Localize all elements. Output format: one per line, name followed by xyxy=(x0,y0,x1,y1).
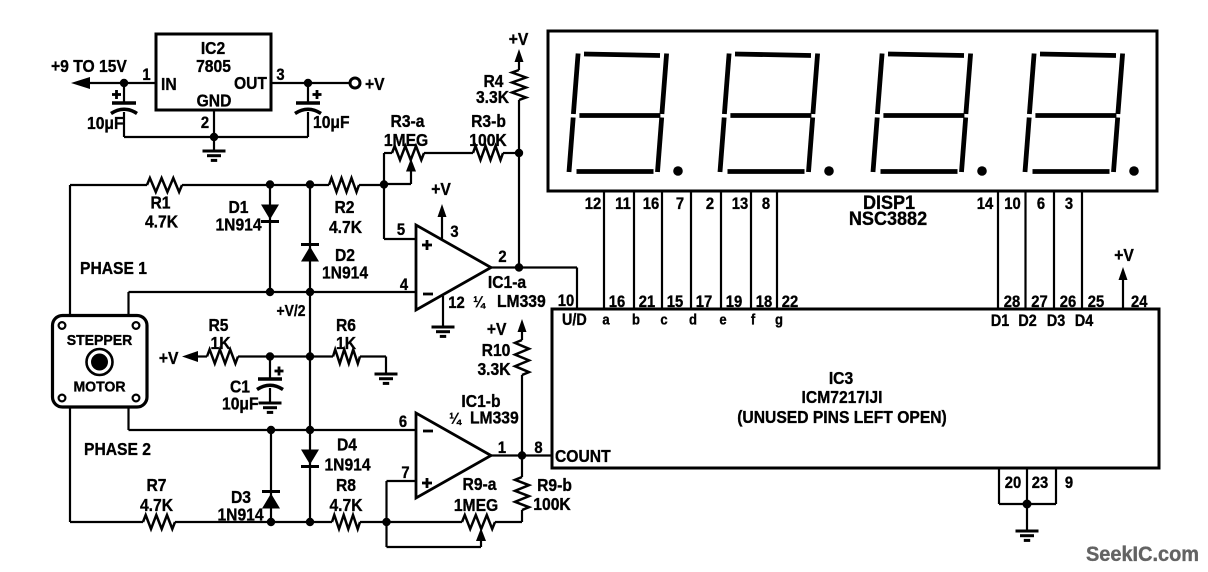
node +V/2 / D2 chain xyxy=(306,288,314,296)
pin 4 label xyxy=(400,276,408,294)
svg-text:OUT: OUT xyxy=(234,73,268,93)
capacitor 10uF (output) xyxy=(295,83,322,137)
digit label D1 xyxy=(991,312,1010,330)
wire stepper top-right to +V/2 rail xyxy=(127,292,129,316)
svg-text:PHASE 2: PHASE 2 xyxy=(84,439,151,459)
svg-text:+9 TO 15V: +9 TO 15V xyxy=(51,56,128,76)
pin 2 label xyxy=(498,248,506,266)
svg-text:SeekIC.com: SeekIC.com xyxy=(1086,543,1199,567)
svg-text:10μF: 10μF xyxy=(222,393,259,413)
diode D4 1N914 xyxy=(301,430,319,522)
wire display segment c xyxy=(661,191,663,309)
display pin 8 label xyxy=(762,195,770,213)
svg-text:12: 12 xyxy=(585,195,602,213)
pin 6 label xyxy=(399,413,407,431)
digit label D2 xyxy=(1018,312,1036,330)
IC3 pin 18 label xyxy=(756,293,773,311)
resistor R2 xyxy=(329,178,359,192)
potentiometer R3-a 1MEG xyxy=(384,146,424,184)
svg-text:COUNT: COUNT xyxy=(555,446,611,466)
svg-text:4.7K: 4.7K xyxy=(329,217,363,237)
label R7 4.7K xyxy=(140,475,174,515)
label D4 1N914 xyxy=(324,434,371,474)
wire D2 chain vertical mid xyxy=(309,292,311,430)
label R8 4.7K xyxy=(329,475,363,515)
wire display digit drive D3 xyxy=(1053,191,1055,309)
display pin 14 label xyxy=(977,195,994,213)
label PHASE 1 xyxy=(80,258,147,278)
svg-text:2: 2 xyxy=(498,248,506,266)
wire R3-a to R3-b xyxy=(424,152,473,154)
svg-text:8: 8 xyxy=(762,195,770,213)
label +9 TO 15V xyxy=(51,56,128,76)
svg-text:100K: 100K xyxy=(469,130,507,150)
digit label D4 xyxy=(1075,312,1094,330)
label R1 4.7K xyxy=(145,192,179,231)
svg-text:¼: ¼ xyxy=(449,410,462,428)
label PHASE 2 xyxy=(84,439,151,459)
resistor R5 1K xyxy=(196,350,270,364)
op-amp IC1-a 1/4 LM339 xyxy=(416,225,491,310)
+V supply arrow IC1-a pin3 xyxy=(431,179,451,240)
svg-text:GND: GND xyxy=(197,90,232,110)
watermark SeekIC.com xyxy=(1086,543,1199,567)
wire display segment f xyxy=(750,191,752,309)
IC3 pin 26 label xyxy=(1060,293,1077,311)
display pin 11 label xyxy=(615,195,631,213)
resistor R3-b 100K xyxy=(473,146,519,160)
label D3 1N914 xyxy=(217,487,264,525)
label COUNT xyxy=(555,446,611,466)
wire display digit drive D4 xyxy=(1081,191,1083,309)
svg-text:R2: R2 xyxy=(334,197,354,217)
svg-text:(UNUSED PINS LEFT OPEN): (UNUSED PINS LEFT OPEN) xyxy=(737,407,947,427)
svg-text:c: c xyxy=(660,311,667,328)
label R3-a 1MEG xyxy=(384,111,428,150)
ground IC3 xyxy=(1016,504,1039,540)
decimal point 3 xyxy=(977,166,987,176)
svg-text:LM339: LM339 xyxy=(470,407,519,427)
label DISP1 xyxy=(863,192,915,214)
svg-text:MOTOR: MOTOR xyxy=(73,379,126,395)
svg-text:R7: R7 xyxy=(146,475,166,495)
svg-text:D4: D4 xyxy=(1075,312,1094,330)
node IC1-a output xyxy=(515,263,523,271)
label D2 1N914 xyxy=(322,245,369,283)
svg-text:13: 13 xyxy=(732,195,749,213)
svg-text:D3: D3 xyxy=(1047,312,1066,330)
wire IC3 pin 23 xyxy=(1026,468,1028,504)
svg-text:+V: +V xyxy=(1114,245,1134,265)
potentiometer R9-a 1MEG xyxy=(387,515,523,547)
svg-text:IC3: IC3 xyxy=(829,368,853,388)
pin 1 label xyxy=(498,439,506,457)
label +V at R10 xyxy=(487,319,507,339)
label unused pins note xyxy=(737,407,947,427)
IC3 pin 28 label xyxy=(1004,293,1021,311)
7-segment digit 4 xyxy=(1025,54,1123,173)
segment letter g xyxy=(775,311,783,328)
svg-text:1N914: 1N914 xyxy=(324,454,371,474)
7-segment digit 1 xyxy=(569,54,667,173)
IC3 pin 22 label xyxy=(782,293,799,311)
svg-text:3: 3 xyxy=(450,223,458,241)
IC3 pin 27 label xyxy=(1031,293,1048,311)
capacitor 10uF (input) xyxy=(111,83,137,137)
segment letter e xyxy=(719,311,726,328)
svg-text:+V: +V xyxy=(159,348,179,368)
pin 1 label of IC2 xyxy=(142,66,150,84)
svg-text:10μF: 10μF xyxy=(313,112,350,132)
svg-text:1N914: 1N914 xyxy=(322,262,369,282)
svg-text:+V: +V xyxy=(431,179,451,199)
+V supply pin 24 xyxy=(1119,267,1128,309)
svg-text:+V: +V xyxy=(487,319,507,339)
wire IC2 OUT to +V terminal xyxy=(271,82,350,84)
svg-text:7: 7 xyxy=(401,464,409,482)
svg-text:4.7K: 4.7K xyxy=(329,495,363,515)
wire pin5 input to IC1-a + xyxy=(384,184,416,239)
wire display digit drive D2 xyxy=(1024,191,1026,309)
svg-text:100K: 100K xyxy=(533,494,571,514)
label 1/4 LM339 (b) xyxy=(449,407,519,427)
display DISP1 NSC3882 box xyxy=(548,31,1157,191)
svg-text:1MEG: 1MEG xyxy=(454,495,498,515)
svg-text:10: 10 xyxy=(1004,195,1021,213)
svg-text:+V/2: +V/2 xyxy=(276,302,305,320)
ground at C1 xyxy=(259,403,282,412)
svg-text:LM339: LM339 xyxy=(497,291,546,311)
node IC1-b output xyxy=(518,451,526,459)
svg-text:PHASE 1: PHASE 1 xyxy=(80,258,147,278)
wire +V/2 rail to IC1-a pin4 xyxy=(129,291,417,293)
decimal point 4 xyxy=(1129,166,1139,176)
value label 10uF output cap xyxy=(313,112,350,132)
svg-text:R10: R10 xyxy=(482,340,511,360)
svg-text:D1: D1 xyxy=(991,312,1010,330)
pin 12 label xyxy=(448,294,465,312)
+V output terminal xyxy=(350,74,385,94)
svg-text:g: g xyxy=(775,311,783,328)
wire R3-a left leg xyxy=(384,153,392,184)
pin 5 label xyxy=(397,221,405,239)
node R5/C1 xyxy=(266,352,274,360)
svg-text:e: e xyxy=(719,311,726,328)
ground (power supply) xyxy=(203,137,226,160)
wire IC1-a output to U/D xyxy=(491,268,577,310)
display pin 12 label xyxy=(585,195,602,213)
svg-text:1: 1 xyxy=(142,66,150,84)
svg-text:IN: IN xyxy=(161,74,177,94)
label IC3 xyxy=(829,368,853,388)
wire stepper top-left to phase1 xyxy=(69,185,71,316)
svg-text:U/D: U/D xyxy=(562,311,587,329)
node at output cap xyxy=(304,79,312,87)
pin 23 label xyxy=(1032,474,1049,492)
node bottom rail / D3 xyxy=(267,518,275,526)
wire display segment a xyxy=(603,191,605,309)
svg-text:1MEG: 1MEG xyxy=(384,130,428,150)
label R4 3.3K xyxy=(476,71,510,107)
svg-text:¼: ¼ xyxy=(473,293,486,311)
IC3 pin 15 label xyxy=(667,293,684,311)
svg-text:1N914: 1N914 xyxy=(215,214,262,234)
diode D2 1N914 xyxy=(301,184,319,292)
segment letter c xyxy=(660,311,667,328)
svg-text:1K: 1K xyxy=(336,333,357,353)
capacitor C1 10uF xyxy=(257,357,284,404)
pin 24 label xyxy=(1131,293,1148,311)
segment letter a xyxy=(602,311,609,328)
pin 7 label xyxy=(401,464,409,482)
ground IC1-a pin12 xyxy=(432,296,455,336)
svg-text:d: d xyxy=(689,311,697,328)
label R9-a 1MEG xyxy=(454,474,498,515)
wire ground rail under IC2 xyxy=(124,110,308,137)
svg-text:7: 7 xyxy=(676,195,684,213)
svg-text:3.3K: 3.3K xyxy=(477,359,511,379)
svg-text:5: 5 xyxy=(397,221,405,239)
IC3 pin 25 label xyxy=(1088,293,1105,311)
resistor R4 3.3K pull-up xyxy=(512,49,526,153)
wire R4 junction down to IC1-a output xyxy=(518,153,520,268)
display pin 6 label xyxy=(1037,195,1045,213)
segment letter f xyxy=(751,311,756,328)
input supply arrow (left) xyxy=(71,77,90,89)
label IC1-a xyxy=(488,272,527,292)
decimal point 2 xyxy=(824,166,834,176)
label NSC3882 xyxy=(849,208,927,230)
wire stepper bottom-right to phase2 xyxy=(127,407,129,430)
svg-text:3: 3 xyxy=(1065,195,1073,213)
svg-text:3.3K: 3.3K xyxy=(476,87,510,107)
svg-text:D4: D4 xyxy=(337,434,358,454)
label U/D xyxy=(562,311,587,329)
decimal point 1 xyxy=(673,166,683,176)
svg-text:IC1-a: IC1-a xyxy=(488,272,527,292)
svg-text:R1: R1 xyxy=(150,192,170,212)
svg-text:ICM7217IJI: ICM7217IJI xyxy=(802,387,883,407)
label +V pin24 xyxy=(1114,245,1134,265)
pin 3 label of IC2 xyxy=(276,66,284,84)
label R3-b 100K xyxy=(469,111,507,150)
svg-text:10μF: 10μF xyxy=(87,113,124,133)
svg-text:R8: R8 xyxy=(336,475,356,495)
diode D3 1N914 xyxy=(262,430,280,522)
label D1 1N914 xyxy=(215,197,262,235)
wire bottom rail xyxy=(70,521,387,523)
display pin 7 label xyxy=(676,195,684,213)
svg-text:4.7K: 4.7K xyxy=(140,495,174,515)
resistor R10 3.3K pull-up xyxy=(515,319,529,456)
pin 3 label xyxy=(450,223,458,241)
node at input cap xyxy=(120,79,128,87)
display pin 13 label xyxy=(732,195,749,213)
label IC1-b xyxy=(461,391,500,411)
svg-text:7805: 7805 xyxy=(196,56,231,76)
resistor R8 4.7K xyxy=(332,515,360,529)
resistor R6 1K xyxy=(333,350,386,375)
wire display segment b xyxy=(633,191,635,309)
wire display segment e xyxy=(720,191,722,309)
wire phase 2 rail to IC1-b pin6 xyxy=(129,429,417,431)
svg-text:D2: D2 xyxy=(1018,312,1036,330)
svg-text:16: 16 xyxy=(643,195,660,213)
pin 20 label xyxy=(1005,474,1022,492)
+V arrow left of R5 xyxy=(159,348,198,368)
svg-text:STEPPER: STEPPER xyxy=(67,333,133,349)
label R2 4.7K xyxy=(329,197,363,237)
wire pin7 input xyxy=(387,481,417,522)
svg-text:12: 12 xyxy=(448,294,465,312)
svg-text:6: 6 xyxy=(1037,195,1045,213)
node ground junction xyxy=(1023,500,1032,509)
node phase2/D3 xyxy=(267,426,275,434)
ground at R6 xyxy=(375,374,398,383)
display pin 3 label xyxy=(1065,195,1073,213)
svg-text:a: a xyxy=(602,311,609,328)
resistor R1 xyxy=(147,178,182,192)
node R4/R3-b junction xyxy=(515,149,523,157)
svg-text:1K: 1K xyxy=(210,333,231,353)
pin 10 label xyxy=(558,292,575,310)
node bottom rail / D4 xyxy=(306,518,314,526)
label R9-b 100K xyxy=(533,475,572,514)
svg-text:2: 2 xyxy=(706,195,714,213)
op-amp IC1-b 1/4 LM339 xyxy=(416,413,491,498)
pin 9 label xyxy=(1065,474,1073,492)
wire display segment g xyxy=(776,191,778,309)
segment letter b xyxy=(632,311,640,328)
svg-text:11: 11 xyxy=(615,195,631,213)
svg-text:+V: +V xyxy=(365,74,385,94)
label 1/4 LM339 xyxy=(473,291,546,311)
svg-text:9: 9 xyxy=(1065,474,1073,492)
wire display segment d xyxy=(690,191,692,309)
svg-text:f: f xyxy=(751,311,756,328)
svg-text:2: 2 xyxy=(201,114,209,132)
display pin 2 label xyxy=(706,195,714,213)
label R5 1K xyxy=(208,315,231,353)
resistor R9-b 100K xyxy=(515,456,529,523)
node R2/R3 junction xyxy=(380,180,388,188)
label R10 3.3K xyxy=(477,340,511,379)
svg-text:6: 6 xyxy=(399,413,407,431)
stepper motor xyxy=(53,316,148,408)
wire R5 junction to R6 xyxy=(270,355,333,357)
node GND pin junction xyxy=(210,133,218,141)
svg-text:b: b xyxy=(632,311,640,328)
pin 2 label of IC2 xyxy=(201,114,209,132)
IC3 pin 21 label xyxy=(639,293,656,311)
digit label D3 xyxy=(1047,312,1066,330)
value label 10uF input cap xyxy=(87,113,124,133)
label R6 1K xyxy=(336,315,357,353)
7-segment digit 2 xyxy=(720,54,818,173)
svg-text:20: 20 xyxy=(1005,474,1022,492)
label +V at R4 xyxy=(509,29,529,49)
counter IC3 ICM7217IJI box xyxy=(552,309,1159,468)
label +V/2 xyxy=(276,302,305,320)
wire phase 1 rail xyxy=(70,184,384,186)
wire input to IC2 IN xyxy=(85,82,156,84)
wire IC3 pin 9 xyxy=(1055,468,1057,504)
svg-text:R3-b: R3-b xyxy=(471,111,506,131)
voltage regulator IC2 7805 box xyxy=(156,34,271,111)
node phase1/D2 xyxy=(306,180,314,188)
wire display digit drive D1 xyxy=(997,191,999,309)
wire bottom ground bar xyxy=(999,503,1056,505)
label ICM7217IJI xyxy=(802,387,883,407)
wire IC1-b output to COUNT xyxy=(491,454,552,456)
segment letter d xyxy=(689,311,697,328)
IC3 pin 19 label xyxy=(726,293,743,311)
wire IC3 pin 20 xyxy=(998,468,1000,504)
resistor R7 4.7K xyxy=(143,515,175,529)
IC3 pin 17 label xyxy=(696,293,713,311)
diode D1 1N914 xyxy=(261,184,279,292)
node bottom rail / pin7 xyxy=(382,518,390,526)
svg-text:3: 3 xyxy=(276,66,284,84)
svg-text:+V: +V xyxy=(509,29,529,49)
IC3 pin 16 label xyxy=(609,293,626,311)
wire stepper bottom-left to bottom rail xyxy=(69,407,71,522)
svg-text:R3-a: R3-a xyxy=(391,111,425,131)
display pin 16 label xyxy=(643,195,660,213)
node rail/D2 chain mid xyxy=(306,352,314,360)
svg-text:NSC3882: NSC3882 xyxy=(849,208,927,230)
label C1 10uF xyxy=(222,376,259,413)
node phase2/D4 xyxy=(306,426,314,434)
node phase1/D1 xyxy=(266,180,274,188)
svg-text:23: 23 xyxy=(1032,474,1049,492)
svg-text:R9-a: R9-a xyxy=(463,474,497,494)
display pin 10 label xyxy=(1004,195,1021,213)
svg-text:14: 14 xyxy=(977,195,994,213)
pin 8 label xyxy=(534,439,542,457)
node +V/2 / D1 xyxy=(266,288,274,296)
svg-text:24: 24 xyxy=(1131,293,1148,311)
7-segment digit 3 xyxy=(873,54,971,173)
svg-text:4.7K: 4.7K xyxy=(145,211,179,231)
svg-text:R9-b: R9-b xyxy=(537,475,572,495)
